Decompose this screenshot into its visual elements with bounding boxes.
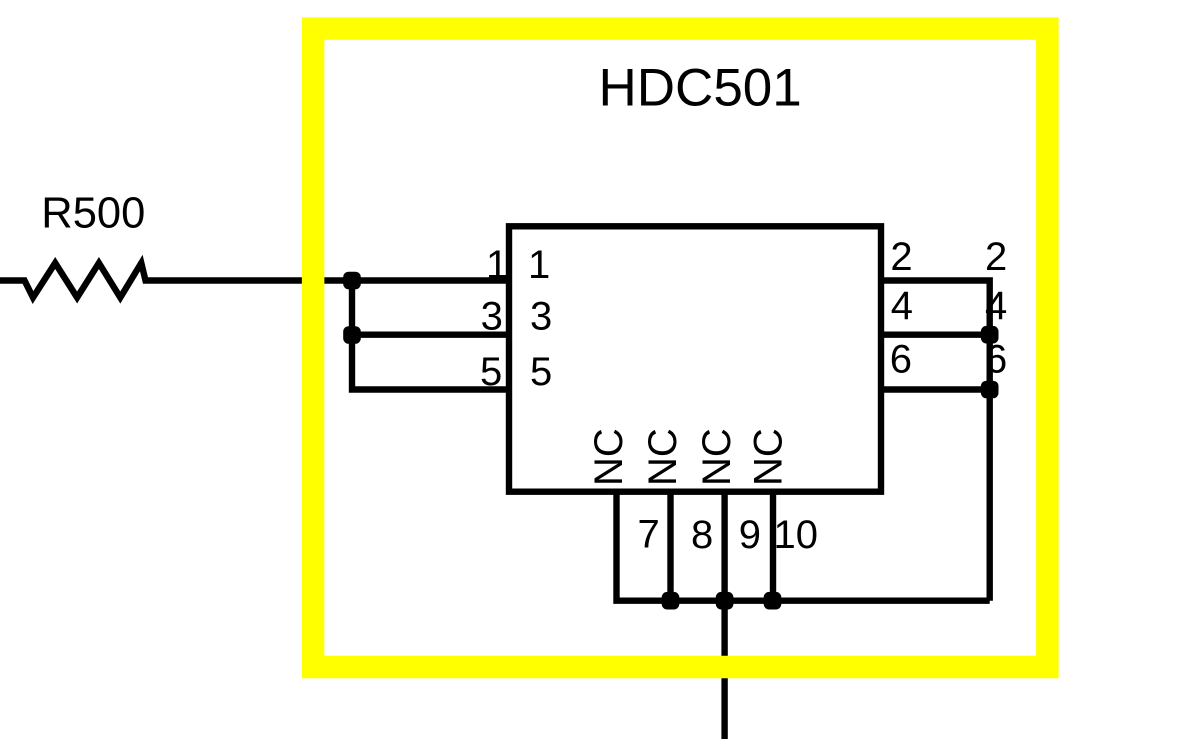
svg-text:3: 3	[481, 295, 503, 339]
svg-text:NC: NC	[587, 428, 631, 486]
svg-text:1: 1	[486, 243, 508, 287]
svg-text:5: 5	[530, 350, 552, 394]
svg-text:3: 3	[530, 295, 552, 339]
svg-text:4: 4	[985, 284, 1007, 328]
svg-text:2: 2	[985, 235, 1007, 279]
svg-text:8: 8	[691, 513, 713, 557]
svg-text:1: 1	[528, 243, 550, 287]
svg-text:6: 6	[890, 338, 912, 382]
svg-text:10: 10	[774, 513, 819, 557]
svg-text:NC: NC	[695, 428, 739, 486]
svg-text:NC: NC	[747, 428, 791, 486]
svg-text:NC: NC	[641, 428, 685, 486]
svg-text:HDC501: HDC501	[599, 58, 802, 117]
svg-text:9: 9	[739, 513, 761, 557]
svg-text:6: 6	[985, 338, 1007, 382]
svg-text:4: 4	[891, 284, 913, 328]
svg-text:7: 7	[638, 513, 660, 557]
svg-text:5: 5	[480, 350, 502, 394]
svg-text:2: 2	[890, 235, 912, 279]
svg-text:R500: R500	[41, 189, 145, 237]
